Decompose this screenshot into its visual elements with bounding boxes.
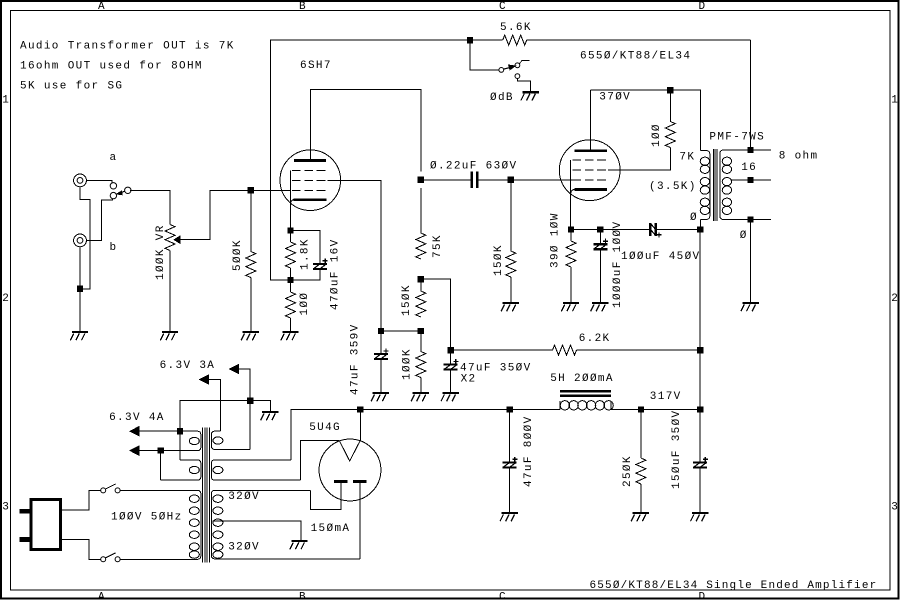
wire left plate to 320V top [311, 483, 341, 509]
svg-text:8 ohm: 8 ohm [779, 151, 819, 163]
junction B+ 6.2K node [698, 348, 703, 353]
wire bypass branch bottom [291, 269, 321, 280]
wire plug to switch bottom [60, 540, 100, 560]
svg-text:5U4G: 5U4G [309, 422, 341, 434]
svg-text:16ohm OUT used for 8OHM: 16ohm OUT used for 8OHM [20, 61, 203, 73]
svg-text:6.3V 3A: 6.3V 3A [160, 360, 216, 372]
tube V2 plate [574, 149, 607, 152]
wire NFB drop to 16 tap [750, 40, 752, 150]
resistor 100 screen [665, 122, 675, 148]
svg-text:16: 16 [741, 162, 757, 174]
wire 0 tap to ground [750, 219, 752, 303]
ground 500K [241, 332, 259, 340]
tube V1 g3-cathode strap and cathode lead [291, 170, 294, 230]
svg-text:6.3V 4A: 6.3V 4A [109, 412, 165, 424]
switch S2 0dB [499, 60, 531, 92]
svg-text:1ØØuF 45ØV: 1ØØuF 45ØV [621, 251, 701, 263]
svg-text:2: 2 [2, 293, 10, 305]
wire VR wiper to grid node [180, 190, 291, 239]
tube V1 grid g2 [292, 179, 326, 181]
svg-text:1ØØK: 1ØØK [401, 348, 413, 380]
wire NFB to 0dB switch [470, 40, 499, 70]
capacitor 0.22uF 630V [472, 172, 477, 188]
ground VR [160, 332, 178, 340]
wire 250K bottom [640, 484, 642, 513]
resistor 500K [246, 252, 256, 278]
tube V1 plate [294, 159, 326, 162]
transformer T1 primary winding [120, 490, 201, 559]
svg-text:1ØØ: 1ØØ [651, 123, 663, 147]
svg-text:A: A [98, 591, 106, 600]
junction 250K tap [638, 407, 643, 412]
ground 47uF800V [500, 513, 518, 521]
ground 150uF [691, 513, 709, 521]
svg-text:25ØK: 25ØK [622, 455, 634, 487]
potentiometer VR 100K [165, 225, 175, 251]
tube V2 cathode [574, 188, 607, 191]
wire V1 g2 lead [328, 180, 381, 331]
junction sleeve ground node [77, 286, 82, 291]
svg-text:1.8K: 1.8K [299, 238, 311, 270]
wire 100 screen to g2 [608, 148, 670, 171]
capacitor 47uF 359V [374, 348, 389, 359]
wire 390 bottom [570, 267, 572, 303]
ground 47uFx2 [441, 393, 459, 401]
wire primary 0 to B+ node [699, 219, 701, 229]
arrow 6.3V4A lower [130, 446, 139, 455]
junction 370V/100 node [668, 88, 673, 93]
svg-text:317V: 317V [650, 391, 682, 403]
svg-text:(3.5K): (3.5K) [649, 181, 697, 193]
tube V1 grid g1 [292, 189, 326, 191]
svg-text:1ØØØuF 1ØØV: 1ØØØuF 1ØØV [612, 221, 624, 308]
wire 1000uF top [599, 230, 601, 245]
wire bypass branch top [291, 231, 321, 264]
svg-text:6.2K: 6.2K [579, 333, 611, 345]
ground heater [261, 412, 279, 420]
wire heater bus [180, 401, 250, 460]
transformer T1 winding 6.3V4A-b [161, 460, 201, 480]
wire 47uFx2 top [450, 350, 452, 364]
tube V3 plate left [334, 480, 348, 483]
junction screen cap node [378, 328, 383, 333]
wire V1 plate to coupling node [310, 89, 420, 171]
junction NFB 5.6K node [467, 38, 472, 43]
wire plate node down to 75K [420, 188, 422, 233]
svg-text:Ø: Ø [740, 230, 748, 242]
wire screen cap to ground [380, 359, 382, 393]
svg-text:15ØK: 15ØK [401, 284, 413, 316]
svg-text:47ØuF 16V: 47ØuF 16V [329, 238, 341, 310]
svg-text:32ØV: 32ØV [228, 542, 260, 554]
wire cap to V2 grid [479, 179, 573, 181]
wire 6.3V3A winding return [249, 401, 251, 450]
tube V2 grid g1 [573, 179, 607, 181]
svg-text:A: A [98, 1, 106, 13]
wire heater node to ground [250, 401, 270, 412]
svg-text:47uF 359V: 47uF 359V [349, 323, 361, 395]
arrow 6.3V4A upper [130, 427, 139, 436]
svg-text:2: 2 [891, 293, 899, 305]
wire jack b to switch [86, 199, 112, 240]
junction heater ground node [248, 398, 253, 403]
tube V3 plate right [353, 480, 367, 483]
wire 390 top [570, 230, 572, 241]
resistor 100K divider [416, 352, 426, 378]
wire supply node to 6.2K [451, 349, 553, 351]
svg-text:Audio Transformer OUT is 7K: Audio Transformer OUT is 7K [20, 41, 235, 53]
wire 100 to ground [290, 318, 292, 332]
svg-text:47uF 8ØØV: 47uF 8ØØV [523, 415, 535, 487]
resistor 6.2K [553, 345, 577, 355]
wire plate node to cap [421, 179, 471, 181]
transformer T2 secondary winding [720, 150, 771, 219]
svg-text:15ØmA: 15ØmA [311, 523, 351, 535]
tube V3 filament [339, 440, 360, 461]
wire 47uF800V to ground [509, 467, 511, 513]
wire 6.3V4A lower [139, 450, 161, 452]
ground HV center tap [290, 541, 308, 549]
wire plug to switch top [60, 490, 100, 510]
wire cathode bus [571, 229, 649, 231]
wire 100uF to B+ node [657, 229, 700, 231]
junction V2 grid node [508, 177, 513, 182]
junction 8 tap [748, 178, 753, 183]
wire 500K bottom to ground [250, 278, 252, 333]
wire 150K grid bottom [510, 277, 512, 303]
svg-text:B: B [299, 591, 307, 600]
svg-text:b: b [110, 242, 118, 254]
wire 75K to 150K [420, 279, 422, 291]
junction 6.3V4A node J1 [177, 429, 182, 434]
svg-text:1ØØK VR: 1ØØK VR [155, 224, 167, 280]
wire 500K top [250, 190, 252, 251]
svg-text:3: 3 [891, 502, 899, 514]
transformer T2 core [713, 149, 717, 221]
wire screen cap top [380, 331, 382, 354]
resistor 150K divider [416, 291, 426, 317]
wire choke to B+ node [611, 409, 700, 411]
junction 75K bottom [418, 277, 423, 282]
resistor 390 10W [566, 241, 576, 267]
wire 100K to ground [420, 378, 422, 394]
ground 100K [411, 393, 429, 401]
svg-text:7K: 7K [679, 152, 695, 164]
wire 100 screen top [669, 90, 671, 121]
svg-text:5ØØK: 5ØØK [232, 239, 244, 271]
ground 1000uF [591, 303, 609, 311]
tube V1 cathode [293, 198, 326, 201]
wiper arrow of VR [174, 236, 180, 243]
tube V2 grid g2 [573, 169, 607, 171]
ground 250K [631, 513, 649, 521]
tube V2 6550 envelope [559, 140, 620, 201]
transformer T1 winding 6.3V3A [211, 431, 250, 449]
wire 75K node to supply node [421, 279, 451, 350]
svg-text:39Ø 1ØW: 39Ø 1ØW [549, 212, 561, 268]
svg-text:1: 1 [2, 95, 10, 107]
svg-text:B: B [299, 1, 307, 13]
transformer T1 winding 6.3V4A-a [161, 431, 201, 450]
svg-text:3: 3 [2, 502, 10, 514]
wire 5V winding to B+ line [291, 410, 360, 460]
resistor 75K [416, 233, 426, 259]
svg-text:C: C [499, 591, 507, 600]
svg-text:1: 1 [891, 95, 899, 107]
wire jack a to switch [86, 180, 112, 182]
wire 6.2K to B+ rail [577, 349, 701, 351]
wire 6.3V4A upper [139, 430, 180, 432]
capacitor 100uF 450V [650, 223, 661, 237]
wire 1000uF bottom [599, 249, 601, 303]
tube V2 grid g3 [573, 159, 607, 161]
wire 100K top [420, 331, 422, 352]
switch S4 mains bottom [101, 553, 120, 562]
wire HV center tap [212, 521, 301, 541]
svg-text:32ØV: 32ØV [228, 491, 260, 503]
switch S3 mains top [101, 484, 120, 493]
junction V2 cathode bus left [568, 227, 573, 232]
junction preamp supply node [448, 348, 453, 353]
svg-text:655Ø/KT88/EL34 Single Ended Am: 655Ø/KT88/EL34 Single Ended Amplifier [590, 580, 878, 592]
wire B+ rail vertical [699, 230, 701, 463]
transformer T1 core [203, 428, 210, 563]
wire filament left leg to 5V winding [301, 440, 340, 480]
wire jack sleeves to ground node [80, 187, 90, 332]
capacitor 470uF 16V [313, 258, 328, 269]
tube V2 g3-cathode strap and cathode lead [571, 160, 575, 230]
transformer T2 primary winding [700, 151, 710, 220]
capacitor 47uF 350V x2 [444, 359, 459, 370]
resistor 5.6K [503, 35, 527, 45]
choke 5H 200mA [560, 391, 613, 410]
arrow 6.3V3A upper [230, 364, 239, 373]
svg-text:15ØuF 35ØV: 15ØuF 35ØV [671, 409, 683, 489]
svg-text:Ø: Ø [690, 212, 698, 224]
svg-text:37ØV: 37ØV [599, 92, 631, 104]
svg-text:1ØØV 5ØHz: 1ØØV 5ØHz [111, 512, 183, 524]
resistor 100 cathode [286, 292, 296, 318]
resistor 1.8K [286, 242, 296, 268]
junction 1.8K bottom node [288, 277, 293, 282]
junction 150K/100K node [418, 328, 423, 333]
wire screen node link [381, 330, 421, 332]
junction V1 plate/cap node [418, 177, 423, 182]
wire switch pole to VR top [130, 190, 170, 224]
svg-text:1ØØ: 1ØØ [299, 292, 311, 316]
junction V1 cathode node [288, 228, 293, 233]
junction filament B+ node [358, 407, 363, 412]
wire NFB rail left [270, 40, 750, 280]
wire filament right leg to B+ [359, 410, 361, 441]
junction B+ choke node [698, 407, 703, 412]
wire cathode to 1.8K [290, 231, 292, 243]
junction 0 tap [748, 217, 753, 222]
wire right plate to 320V bottom [359, 483, 361, 559]
svg-text:655Ø/KT88/EL34: 655Ø/KT88/EL34 [580, 51, 691, 63]
svg-text:a: a [110, 152, 118, 164]
svg-text:5K use for SG: 5K use for SG [20, 81, 123, 93]
svg-text:15ØK: 15ØK [493, 244, 505, 276]
wire 6.3V3A upper [239, 369, 251, 401]
capacitor 1000uF 100V [593, 239, 608, 250]
svg-text:C: C [499, 1, 507, 13]
svg-text:X2: X2 [461, 374, 477, 386]
svg-text:5H 2ØØmA: 5H 2ØØmA [550, 373, 614, 385]
wire rectifier B+ line [291, 409, 560, 411]
svg-text:6SH7: 6SH7 [300, 60, 332, 72]
capacitor 150uF 350V [693, 457, 708, 468]
transformer T1 HV winding [211, 490, 360, 558]
ground 150K grid [501, 303, 519, 311]
tube V3 5U4G envelope [319, 439, 381, 501]
wire 250K top [640, 410, 642, 458]
svg-text:PMF-7WS: PMF-7WS [709, 132, 765, 144]
junction B+ primary node [698, 227, 703, 232]
transformer T1 winding 5V [211, 460, 300, 480]
svg-text:D: D [699, 1, 707, 13]
tube V1 6SH7 envelope [280, 150, 341, 211]
svg-text:5.6K: 5.6K [500, 22, 532, 34]
svg-text:ØdB: ØdB [490, 92, 514, 104]
wire 150uF to ground [699, 467, 701, 513]
capacitor 47uF 800V [503, 457, 518, 468]
plug AC mains [20, 500, 61, 550]
wire secondary mid tap [731, 179, 772, 181]
arrow 6.3V3A lower [200, 375, 209, 384]
junction grid node 500K top [248, 188, 253, 193]
ground screen cap [371, 393, 389, 401]
wire J2 to winding b [160, 451, 162, 481]
svg-text:D: D [699, 591, 707, 600]
junction 1000uF tap [598, 227, 603, 232]
wire 1.8K to 100 [290, 268, 292, 292]
wire 47uFx2 to ground [450, 370, 452, 393]
wire V2 plate lead [589, 90, 591, 151]
ground 390 [561, 303, 579, 311]
ground V1 cathode [281, 332, 299, 340]
wire VR bottom to ground [169, 251, 171, 333]
wire 6.3V3A lower [209, 380, 221, 432]
junction 16 tap [748, 148, 753, 153]
resistor 250K [636, 458, 646, 484]
ground input jacks [70, 332, 88, 340]
ground 0dB switch [521, 92, 539, 100]
junction 6.3V4A node J2 [158, 448, 163, 453]
ground secondary 0 [741, 303, 759, 311]
jack b [74, 234, 87, 247]
wire 370V rail [590, 90, 700, 150]
jack a [74, 174, 87, 187]
svg-text:Ø.22uF 63ØV: Ø.22uF 63ØV [430, 161, 517, 173]
resistor 150K grid [506, 251, 516, 277]
svg-text:75K: 75K [432, 234, 444, 258]
wire 47uF800V top [509, 410, 511, 463]
tube V1 grid g3 [292, 169, 326, 171]
wire 150K grid top [510, 180, 512, 251]
junction 47uF 800V tap [507, 407, 512, 412]
switch S1 input select [110, 183, 131, 199]
